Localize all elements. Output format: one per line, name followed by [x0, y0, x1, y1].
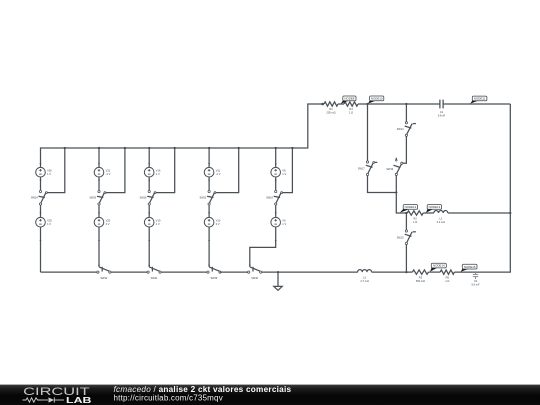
inductor L1 (2.2 mH) — [434, 211, 448, 225]
svg-text:V25: V25 — [47, 219, 52, 223]
voltage source V25 (1 V) — [36, 217, 53, 227]
svg-text:SW40: SW40 — [251, 277, 258, 280]
junction dot node12 — [405, 212, 407, 214]
junction dot SW14 branch — [405, 103, 407, 105]
wire V25 down to bottom bus corner — [40, 227, 42, 272]
switch SW14 — [397, 122, 416, 137]
junction dot SW15 / bottom bus — [405, 271, 407, 273]
wire switch SW22 throw to bus branch — [216, 148, 239, 193]
svg-text:2.2 mH: 2.2 mH — [437, 220, 445, 224]
svg-text:V9: V9 — [282, 219, 286, 223]
svg-text:1 Ω: 1 Ω — [349, 111, 353, 115]
svg-text:SW17: SW17 — [358, 167, 365, 170]
svg-text:C1: C1 — [440, 110, 444, 114]
wire SW17 to junction below SW16 — [368, 175, 397, 192]
node label NODE11 — [470, 96, 487, 104]
wire column 4 stub bus to V11 — [208, 148, 210, 167]
wire SW26 to V19 — [148, 206, 150, 218]
svg-text:SW39: SW39 — [210, 277, 217, 280]
svg-text:V19: V19 — [156, 219, 161, 223]
wire switch SW20 throw to bus branch — [106, 148, 125, 193]
wire switch SW24 throw to bus branch — [47, 148, 65, 193]
wire C1 to right corner — [443, 103, 510, 105]
footer bar — [0, 385, 540, 405]
svg-text:1 V: 1 V — [282, 172, 286, 176]
wire SW24 to V25 — [40, 206, 42, 218]
wire V21 to SW20 — [98, 177, 100, 190]
switch SW40 — [248, 265, 262, 280]
svg-text:SW18: SW18 — [266, 197, 273, 200]
svg-text:L1: L1 — [439, 217, 442, 221]
wire bottom bus SW42 to SW41 — [111, 271, 148, 273]
node label NODE15 — [461, 264, 477, 271]
capacitor C2 (5.6 mF) — [471, 272, 479, 286]
svg-text:-1 V: -1 V — [106, 172, 111, 176]
svg-text:SW41: SW41 — [151, 277, 158, 280]
svg-text:V16: V16 — [156, 169, 161, 173]
svg-text:SW42: SW42 — [100, 277, 107, 280]
wire R1 to R4 (node 8) — [338, 103, 344, 105]
junction dots on top bus — [64, 147, 294, 149]
wire switch SW26 throw to bus branch — [156, 148, 175, 193]
svg-text:1 V: 1 V — [156, 222, 160, 226]
switch SW24 — [31, 190, 47, 205]
capacitor C1 (6.8 nF) — [438, 100, 446, 118]
svg-text:1 V: 1 V — [47, 222, 51, 226]
svg-text:R4: R4 — [349, 107, 353, 111]
switch SW22 — [199, 190, 215, 205]
svg-text:0 V: 0 V — [216, 222, 220, 226]
junction dot node10 — [366, 103, 368, 105]
svg-text:1 V: 1 V — [47, 172, 51, 176]
svg-text:V11: V11 — [216, 169, 221, 173]
wire junction down to node12 row — [396, 193, 407, 214]
svg-text:V10: V10 — [216, 219, 221, 223]
wire R3 to R5 (node 14) — [428, 271, 440, 273]
svg-text:1 V: 1 V — [282, 222, 286, 226]
resistor R1 (200 m&#937;) — [324, 102, 338, 115]
switch SW18 — [266, 190, 282, 205]
wire V10 down to bottom switch — [208, 227, 210, 267]
inductor L2 (4.7 mH) — [358, 270, 372, 283]
voltage source V10 (0 V) — [204, 217, 221, 227]
wire R2 to L1 (node 13) — [423, 212, 434, 214]
junction dot below SW16 — [395, 191, 397, 193]
wire V16 to SW26 — [148, 177, 150, 190]
ground — [274, 271, 282, 290]
voltage source V8 (1 V) — [271, 167, 287, 177]
CircuitLab logo — [23, 386, 92, 405]
svg-text:L2: L2 — [363, 276, 366, 280]
wire node10 down to SW17 — [367, 104, 369, 161]
svg-text:2 V: 2 V — [106, 222, 110, 226]
junction dot row/right vertical — [509, 212, 511, 214]
svg-text:SW22: SW22 — [199, 197, 206, 200]
node label NODE12 — [400, 205, 418, 213]
svg-text:V8: V8 — [282, 169, 286, 173]
wire SW14 to SW16 — [403, 136, 407, 163]
wire L2 to node at SW15 — [372, 271, 413, 273]
voltage source V19 (1 V) — [144, 217, 161, 227]
wire R4 to SW17 branch and SW14 branch — [358, 103, 440, 105]
svg-text:NODE15: NODE15 — [464, 265, 476, 269]
wire SW14 branch down — [405, 104, 407, 122]
wire node12 down to SW15 — [405, 213, 407, 230]
wire bottom bus SW41 to SW39 — [161, 271, 208, 273]
switch SW16 — [386, 158, 403, 176]
wire V26 to SW24 — [40, 177, 42, 190]
svg-text:R2: R2 — [414, 217, 418, 221]
svg-text:R3: R3 — [419, 276, 423, 280]
svg-text:NODE10: NODE10 — [371, 97, 383, 101]
wire bottom bus SW40 to ground node — [262, 271, 358, 273]
voltage source V26 (1 V) — [36, 167, 53, 177]
wire V9 down, jog left to SW40 — [250, 227, 276, 267]
wire SW20 to V20 — [98, 206, 100, 218]
node label NODE8 — [341, 96, 356, 104]
svg-text:NODE14: NODE14 — [433, 264, 445, 268]
resistor R2 (1 &#937;) — [407, 211, 423, 224]
voltage source V21 (-1 V) — [94, 167, 111, 177]
wire bottom bus left of SW42 — [41, 271, 98, 273]
wire SW22 to V10 — [208, 206, 210, 218]
svg-text:1 Ω: 1 Ω — [445, 279, 449, 283]
svg-text:V20: V20 — [106, 219, 111, 223]
wire L1 to right vertical — [448, 212, 511, 214]
svg-text:NODE8: NODE8 — [344, 97, 354, 101]
svg-text:R5: R5 — [446, 276, 450, 280]
resistor R3 (500 m&#937;) — [412, 270, 428, 283]
node label NODE14 — [430, 263, 446, 271]
svg-text:4.7 mH: 4.7 mH — [360, 279, 368, 283]
svg-text:http://circuitlab.com/c735mqv: http://circuitlab.com/c735mqv — [114, 393, 223, 402]
svg-text:SW14: SW14 — [397, 128, 404, 131]
wire R5 to right corner — [454, 104, 510, 272]
switch SW39 — [207, 265, 221, 280]
switch SW26 — [140, 190, 156, 205]
resistor R5 (1 &#937;) — [440, 270, 454, 283]
svg-text:SW24: SW24 — [31, 197, 38, 200]
svg-text:NODE12: NODE12 — [405, 205, 417, 209]
switch SW42 — [97, 265, 111, 280]
wire column 2 stub bus to V21 — [98, 148, 100, 167]
wire bottom bus SW39 to SW40 — [220, 271, 249, 273]
svg-text:V26: V26 — [47, 169, 52, 173]
switch SW41 — [147, 265, 161, 280]
svg-text:NODE13: NODE13 — [429, 205, 441, 209]
svg-text:SW15: SW15 — [397, 236, 404, 239]
wire V8 to SW18 — [275, 177, 277, 190]
svg-text:1 Ω: 1 Ω — [413, 220, 417, 224]
wire V11 to SW22 — [208, 177, 210, 190]
node label NODE13 — [426, 205, 442, 213]
wire column 1 stub bus to V26 — [40, 163, 42, 165]
switch SW15 — [397, 230, 416, 245]
wire V19 down to bottom switch — [148, 227, 150, 267]
wire SW15 down to bottom bus — [405, 244, 407, 272]
svg-text:5.6 mF: 5.6 mF — [471, 282, 479, 286]
svg-text:SW16: SW16 — [386, 168, 393, 171]
svg-text:C2: C2 — [474, 279, 478, 283]
switch SW20 — [89, 190, 105, 205]
wire switch SW18 throw to bus branch — [283, 148, 293, 193]
wire top bus — [41, 104, 325, 167]
junction dot at top-left wire start — [321, 103, 324, 106]
wire V20 down to bottom switch — [98, 227, 100, 267]
svg-text:1 V: 1 V — [156, 172, 160, 176]
svg-text:LAB: LAB — [66, 395, 92, 405]
svg-text:R1: R1 — [329, 107, 333, 111]
wire column 5 stub bus to V8 — [275, 148, 277, 167]
svg-text:NODE11: NODE11 — [474, 97, 486, 101]
voltage source V20 (2 V) — [94, 217, 111, 227]
svg-text:V21: V21 — [106, 169, 111, 173]
wire column 3 stub bus to V16 — [148, 148, 150, 167]
svg-text:200 mΩ: 200 mΩ — [326, 111, 335, 115]
wire SW18 to V9 — [275, 206, 277, 218]
svg-text:-1 V: -1 V — [216, 172, 221, 176]
svg-text:SW26: SW26 — [140, 197, 147, 200]
switch SW17 — [358, 161, 378, 176]
voltage source V11 (-1 V) — [204, 167, 220, 177]
voltage source V9 (1 V) — [271, 217, 287, 227]
svg-text:SW20: SW20 — [89, 197, 96, 200]
svg-text:6.8 nF: 6.8 nF — [438, 114, 446, 118]
voltage source V16 (1 V) — [144, 167, 161, 177]
node label NODE10 — [368, 96, 384, 104]
resistor R4 (1 &#937;) — [344, 102, 358, 115]
svg-text:500 mΩ: 500 mΩ — [416, 279, 425, 283]
wire SW16 down to junction — [395, 175, 397, 192]
